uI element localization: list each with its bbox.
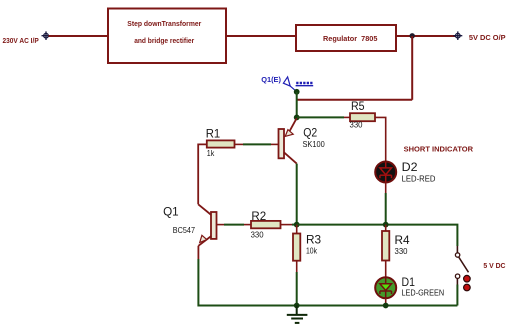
wire input to transformer [49, 35, 109, 37]
resistor R4 [382, 231, 389, 261]
svg-text:330: 330 [251, 231, 265, 240]
pin R5 left [344, 116, 350, 118]
svg-text:10k: 10k [306, 247, 318, 256]
pin R4 top [385, 225, 387, 231]
base pin [271, 143, 279, 145]
svg-text:R1: R1 [206, 127, 221, 141]
svg-text:D2: D2 [402, 160, 418, 174]
node ground / R3 [294, 303, 300, 309]
wire R3 to ground rail [296, 272, 298, 306]
svg-text:SK100: SK100 [303, 140, 326, 149]
resistor R3 [293, 234, 300, 261]
emitter arrow [285, 130, 293, 137]
svg-text:LED-RED: LED-RED [402, 175, 436, 184]
emitter wire [198, 236, 211, 246]
svg-text:D1: D1 [402, 275, 416, 289]
wire 5V rail to emitter node [297, 99, 413, 101]
terminal 230V AC input [42, 31, 51, 40]
wire switch to ground rail [456, 285, 458, 306]
svg-text:Regulator 7805: Regulator 7805 [323, 34, 377, 43]
pin R1 right [235, 143, 244, 145]
svg-text:R3: R3 [306, 232, 321, 246]
pin R4 bottom / wire to D1 [385, 261, 387, 278]
svg-text:Step downTransformer: Step downTransformer [127, 19, 201, 28]
block step-down transformer and bridge rectifier [108, 9, 226, 64]
svg-text:330: 330 [350, 120, 364, 129]
switch actuator dots [464, 275, 471, 282]
svg-text:230V AC I/P: 230V AC I/P [3, 36, 39, 45]
resistor R5 [350, 113, 375, 121]
pin R2 left [244, 224, 251, 226]
wire bottom rail [198, 305, 457, 307]
node emitter top [294, 89, 300, 95]
svg-text:Q1(E): Q1(E) [261, 75, 281, 84]
ground [287, 306, 308, 323]
base pin [217, 224, 225, 226]
pin R3 bottom [296, 261, 298, 272]
pin R1 left / wire down to Q1 [198, 144, 207, 204]
svg-text:R4: R4 [395, 233, 410, 247]
svg-text:BC547: BC547 [173, 226, 196, 235]
wire node to R5 [297, 116, 344, 118]
svg-text:LED-GREEN: LED-GREEN [402, 288, 445, 297]
svg-text:SHORT INDICATOR: SHORT INDICATOR [404, 144, 474, 153]
svg-text:R2: R2 [251, 209, 266, 223]
svg-text:1k: 1k [207, 149, 215, 158]
wire mid rail [297, 225, 458, 246]
base bar [279, 129, 285, 158]
svg-text:5 V DC: 5 V DC [483, 261, 506, 270]
LED D1 (green) [375, 275, 444, 298]
pin R2 right [281, 224, 293, 226]
svg-text:R5: R5 [351, 99, 365, 113]
wire 5V rail down [411, 36, 413, 100]
pin R5 right / wire to D2 [375, 117, 386, 161]
terminal 5V DC output [453, 31, 462, 40]
node collector / R2 / R3 [294, 222, 300, 228]
wire D2 to mid rail [385, 182, 387, 193]
resistor R2 [251, 221, 281, 228]
wire Q1 emitter down [197, 246, 199, 259]
svg-text:5V DC O/P: 5V DC O/P [469, 33, 506, 42]
base bar [211, 212, 217, 239]
svg-text:Q2: Q2 [303, 125, 317, 139]
wire R2 to junction [292, 224, 297, 226]
wire regulator to output terminal [396, 35, 456, 37]
wire Q2 collector down [296, 164, 298, 225]
wire Q1 base to R2 [224, 224, 244, 226]
wire transformer to regulator [226, 35, 296, 37]
collector wire [198, 204, 211, 215]
node ground / D1 [383, 303, 389, 309]
transistor Q1 (NPN BC547) [163, 204, 224, 246]
emitter wire [289, 118, 297, 132]
wire R1 to Q2 base [243, 143, 271, 145]
wire D1 to ground rail [385, 298, 387, 305]
node D2 / R4 [383, 222, 389, 228]
LED D2 (red) [375, 160, 435, 184]
pin R3 top [296, 225, 298, 234]
junction 5V rail [410, 33, 415, 38]
transistor Q2 (PNP SK100) [271, 118, 325, 163]
switch SPST [455, 246, 470, 291]
block regulator 7805 [296, 25, 396, 51]
svg-text:and bridge rectifier: and bridge rectifier [134, 36, 194, 45]
collector wire [284, 152, 297, 163]
emitter arrow [200, 235, 207, 242]
wire emitter node vertical [296, 92, 298, 118]
svg-text:330: 330 [395, 247, 409, 256]
resistor R1 [207, 140, 235, 147]
svg-text:Q1: Q1 [163, 204, 179, 218]
node emitter / R5 [294, 115, 300, 121]
probe Q1(E) [261, 75, 313, 92]
